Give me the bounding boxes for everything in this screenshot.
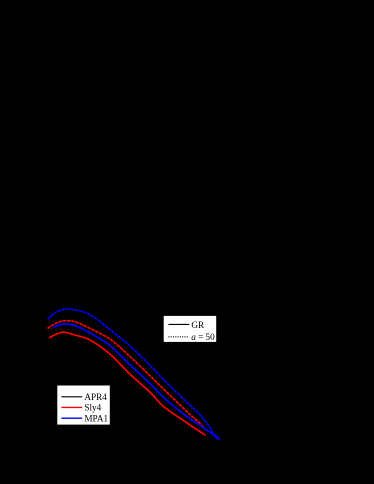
curve Sly4 a=50 (red, dotted, upper) [48,321,207,430]
svg-text:APR4: APR4 [84,392,107,402]
curve MPA1 GR (blue, solid, lower) [53,324,220,440]
legend box GR / a=50 [163,315,217,342]
curve Sly4 GR (red, solid, lower) [49,332,206,435]
svg-text:GR: GR [191,320,205,330]
svg-text:a = 50: a = 50 [191,332,215,342]
legend box EOS [57,385,111,425]
curve MPA1 a=50 (blue, dotted, upper) [48,309,217,439]
svg-text:Sly4: Sly4 [84,403,101,413]
svg-text:MPA1: MPA1 [84,414,108,424]
